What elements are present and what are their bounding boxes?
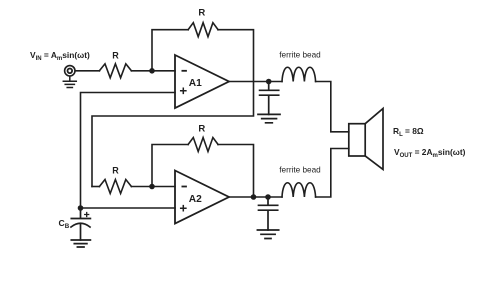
ground (C_B) — [71, 240, 90, 247]
wire R1 to A1 inverting input — [131, 70, 175, 72]
wire R2 right then down across output to bottom route — [92, 30, 254, 187]
svg-text:R: R — [198, 123, 205, 134]
speaker RL (rectangle + cone) — [349, 124, 365, 156]
wire R4 right then down to A2 output — [218, 145, 254, 198]
svg-text:R: R — [198, 7, 205, 18]
wire A1 non-inverting input to bias line — [81, 93, 176, 209]
node A2 feedback to output — [251, 194, 257, 200]
ferrite bead 2 — [282, 183, 316, 197]
wire input terminal to R1 — [75, 70, 99, 72]
wire A2 output to ferrite bead 2 — [229, 196, 282, 198]
wire bead 2 to speaker lower terminal — [316, 149, 349, 198]
resistor R3 (input resistor of A2) — [99, 180, 131, 194]
svg-text:CB: CB — [59, 218, 70, 230]
svg-text:A2: A2 — [189, 194, 202, 205]
node output A2 / cap 2 — [265, 194, 271, 200]
input terminal (double circle) — [65, 66, 75, 76]
svg-text:R: R — [112, 166, 119, 176]
wire R3 to A2 inverting input — [131, 186, 175, 188]
ground (C2) — [257, 230, 278, 239]
op-amp A2 — [175, 171, 229, 224]
svg-text:R: R — [112, 51, 119, 61]
ground (C1) — [258, 114, 280, 122]
node at A1 inverting input junction — [149, 68, 155, 74]
svg-text:ferrite bead: ferrite bead — [279, 166, 321, 175]
svg-text:RL = 8Ω: RL = 8Ω — [393, 126, 424, 138]
ferrite bead 1 — [282, 67, 316, 81]
svg-text:ferrite bead: ferrite bead — [279, 50, 321, 59]
svg-text:VOUT = 2Amsin(ωt): VOUT = 2Amsin(ωt) — [394, 147, 466, 159]
op-amp A1 — [175, 55, 229, 108]
capacitor C2 (A2 output to ground) — [259, 197, 278, 230]
capacitor C1 (A1 output to ground) — [260, 82, 279, 115]
svg-text:VIN = Amsin(ωt): VIN = Amsin(ωt) — [30, 50, 90, 62]
plus sign of C_B — [85, 213, 89, 217]
ground (input terminal) — [63, 76, 76, 87]
wire route down to resistor R3 — [92, 186, 99, 188]
node at A2 inverting input junction — [149, 184, 155, 190]
capacitor C_B (polarized) — [71, 208, 90, 219]
node bias / C_B — [78, 205, 84, 211]
resistor R4 (A2 feedback) — [188, 138, 218, 152]
node output A1 / cap 1 — [266, 79, 272, 85]
wire A2 non-inverting input to bias line — [81, 207, 176, 209]
wire junction up to A2 feedback row — [152, 145, 188, 187]
svg-text:A1: A1 — [189, 78, 202, 89]
wire A1 output to ferrite bead 1 — [229, 81, 282, 83]
wire bead 1 to speaker upper terminal — [316, 82, 349, 132]
resistor R2 (A1 feedback) — [188, 23, 218, 37]
resistor R1 (input resistor of A1) — [99, 64, 131, 78]
wire junction up to feedback row — [152, 30, 188, 71]
